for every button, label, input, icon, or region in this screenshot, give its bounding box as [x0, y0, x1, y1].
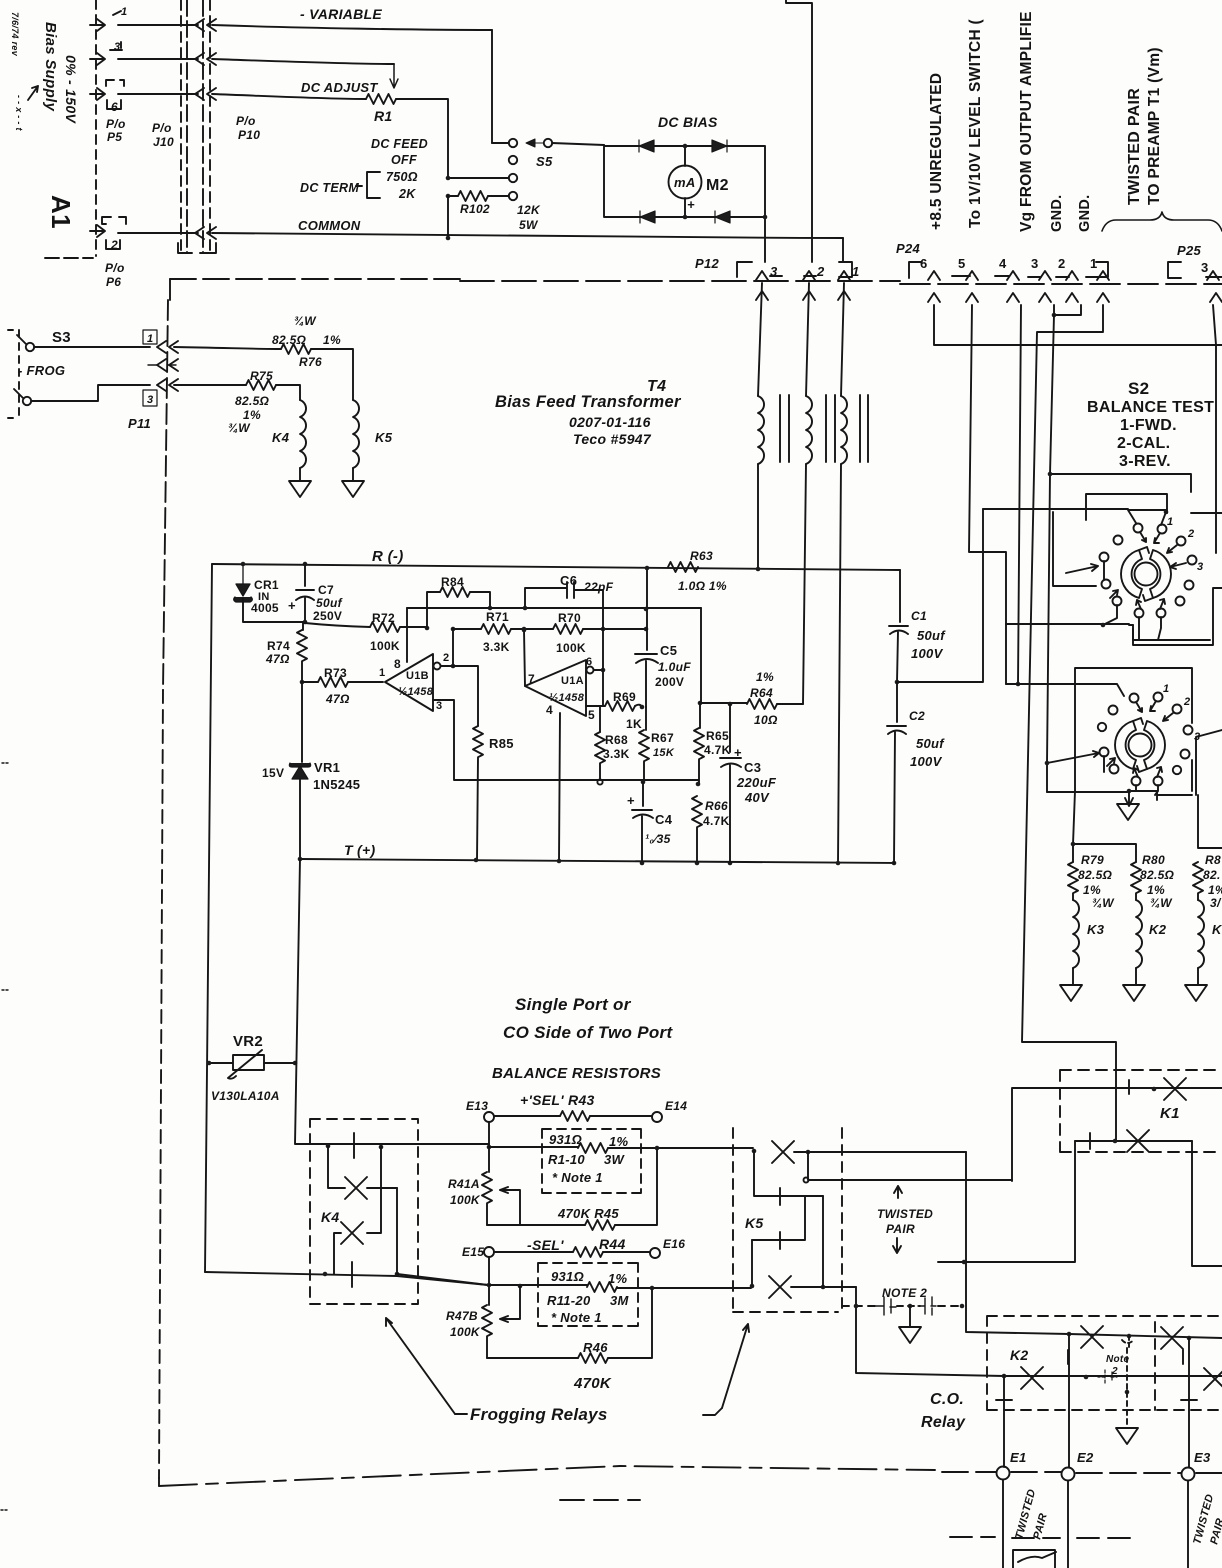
svg-text:* Note 1: * Note 1	[551, 1310, 602, 1325]
wire K5 rowA to K2 row1	[966, 1152, 1069, 1334]
svg-text:C.O.: C.O.	[930, 1391, 964, 1408]
svg-text:200V: 200V	[655, 675, 684, 689]
note2 ground	[909, 1306, 911, 1327]
svg-text:K4: K4	[272, 430, 290, 445]
S3 wire bottom	[31, 385, 150, 401]
svg-text:K5: K5	[745, 1215, 764, 1231]
T4 core bars 3	[860, 395, 868, 462]
svg-text:R76: R76	[299, 355, 322, 369]
K4 bottom row	[323, 1272, 328, 1277]
note2b dashed elements	[1098, 1370, 1117, 1384]
svg-text:P/o: P/o	[152, 121, 172, 135]
P12 pin 2	[803, 271, 815, 280]
svg-text:3: 3	[1197, 561, 1203, 573]
op-amp U1A	[525, 660, 586, 716]
svg-text:+: +	[627, 793, 635, 808]
svg-text:3: 3	[147, 394, 153, 406]
P11 pin mid arrow	[148, 364, 176, 366]
svg-text:470K: 470K	[573, 1375, 612, 1392]
svg-text:R1: R1	[374, 108, 393, 124]
svg-text:E3: E3	[1194, 1450, 1211, 1465]
svg-text:R47B: R47B	[446, 1309, 478, 1323]
svg-text:OFF: OFF	[391, 153, 417, 167]
resistor R73	[300, 680, 305, 685]
A1 assembly rotated title text	[10, 12, 79, 229]
svg-text:3W: 3W	[604, 1152, 626, 1167]
svg-text:- FROG: - FROG	[18, 363, 65, 378]
svg-text:T (+): T (+)	[344, 842, 375, 858]
svg-text:100V: 100V	[911, 646, 944, 661]
svg-text:Single Port or: Single Port or	[515, 995, 632, 1014]
svg-text:1%: 1%	[756, 670, 774, 684]
R69	[605, 701, 635, 711]
P25 pin 3	[1207, 271, 1219, 280]
pin 2 bubble	[434, 663, 441, 670]
K2 row 2	[1004, 1375, 1222, 1377]
svg-text:3.3K: 3.3K	[603, 747, 630, 761]
svg-text:4.7K: 4.7K	[704, 743, 731, 757]
capacitor C7	[303, 562, 308, 567]
wire P5.3 to P10	[118, 58, 198, 60]
svg-text:2: 2	[110, 238, 118, 252]
svg-text:K5: K5	[375, 430, 393, 445]
preamp pin1 wire down to K1	[1022, 305, 1116, 1141]
resistor R81	[1193, 862, 1203, 893]
svg-text:4: 4	[546, 703, 553, 717]
svg-text:K1: K1	[1160, 1105, 1180, 1122]
A1 boundary dashed vertical left	[163, 300, 168, 690]
ground K3	[1060, 985, 1082, 1001]
svg-text:+: +	[687, 197, 695, 212]
resistor R75	[246, 380, 276, 390]
node line y608 corner to R65	[700, 608, 702, 703]
svg-text:P12: P12	[695, 256, 720, 271]
E13 leg down	[488, 1122, 490, 1172]
svg-text:1: 1	[121, 6, 127, 18]
wire P5.1 to P10	[118, 24, 198, 26]
connector P5 pin 6	[90, 80, 124, 114]
svg-text:E13: E13	[466, 1099, 488, 1113]
svg-text:931Ω: 931Ω	[549, 1132, 582, 1147]
switch 2 bottom wire to ground	[1104, 756, 1158, 795]
svg-text:R41A: R41A	[448, 1177, 480, 1191]
R72 wire	[305, 623, 370, 627]
pin 3 route	[433, 700, 698, 780]
pot R41A	[482, 1172, 492, 1203]
svg-text:50uf: 50uf	[916, 736, 945, 751]
resistor R76	[281, 344, 311, 354]
svg-text:250V: 250V	[313, 609, 342, 623]
diode CR1	[234, 565, 253, 602]
svg-text:100K: 100K	[450, 1325, 481, 1339]
relay coil K5	[353, 400, 359, 468]
switch 1 contacts	[1100, 524, 1197, 618]
left vertical to K4 bottom row	[205, 1272, 488, 1285]
svg-text:1%: 1%	[1083, 883, 1101, 897]
svg-text:82.: 82.	[1203, 868, 1221, 882]
pin 8 line	[406, 608, 408, 662]
svg-text:R46: R46	[583, 1340, 608, 1355]
K4 vertical right inner	[396, 1188, 398, 1274]
svg-text:+: +	[734, 745, 742, 760]
svg-text:P/o: P/o	[106, 117, 126, 131]
svg-text:82.5Ω: 82.5Ω	[1140, 868, 1175, 882]
svg-text:1-FWD.: 1-FWD.	[1120, 417, 1177, 434]
svg-text:R44: R44	[599, 1236, 626, 1252]
svg-text:S2: S2	[1128, 379, 1149, 398]
resistor R74	[302, 622, 304, 630]
svg-text:¾W: ¾W	[1092, 896, 1115, 910]
select resistor net 2 wire	[489, 1284, 587, 1286]
svg-text:COMMON: COMMON	[298, 218, 361, 233]
relay coil K3	[1073, 900, 1079, 968]
svg-text:R63: R63	[690, 549, 713, 563]
svg-text:100V: 100V	[910, 754, 943, 769]
meter M2	[669, 166, 702, 199]
switch 1 rotor	[1121, 550, 1142, 598]
tap to second pair wire	[808, 1152, 1012, 1180]
svg-text:3: 3	[1031, 256, 1039, 271]
DC ADJUST wiper corner + arrow	[390, 64, 398, 88]
wire P5.2 to P10	[118, 232, 198, 234]
K5 left leg	[754, 1151, 823, 1196]
label DC FEED OFF 750 2K	[371, 137, 428, 201]
node R- to CR1	[241, 562, 246, 567]
svg-text:CR1: CR1	[254, 578, 279, 592]
+8.5 unregulated wire	[934, 305, 1222, 345]
svg-text:R11-20: R11-20	[547, 1293, 591, 1308]
K5 dashed box	[733, 1128, 842, 1312]
svg-text:C3: C3	[744, 760, 761, 775]
svg-text:+8.5 UNREGULATED: +8.5 UNREGULATED	[928, 73, 945, 230]
svg-text:2: 2	[816, 264, 825, 279]
svg-text:DC BIAS: DC BIAS	[658, 114, 718, 130]
svg-text:P11: P11	[128, 416, 151, 431]
svg-text:+: +	[288, 598, 296, 613]
R70	[553, 624, 583, 634]
svg-text:M2: M2	[706, 177, 729, 194]
switch 1 wiper feed	[983, 509, 1166, 523]
resistor R79	[1068, 862, 1078, 893]
svg-text:0207-01-116: 0207-01-116	[569, 414, 651, 430]
svg-text:2-CAL.: 2-CAL.	[1117, 435, 1170, 452]
P24 connector bracket	[909, 262, 1108, 278]
svg-text:R73: R73	[324, 666, 347, 680]
svg-text:931Ω: 931Ω	[551, 1269, 584, 1284]
wire pin1 to R76	[174, 347, 281, 349]
svg-text:V130LA10A: V130LA10A	[211, 1089, 280, 1103]
T(+) bus	[300, 859, 894, 863]
svg-text:R74: R74	[267, 639, 290, 653]
COMMON wire	[212, 233, 843, 238]
K5 left leg 2	[751, 1240, 753, 1285]
R63 in bus	[668, 562, 698, 572]
svg-text:DC TERM: DC TERM	[300, 181, 359, 195]
bridge diode top-left (points left)	[639, 140, 654, 152]
T4 winding 2	[806, 283, 809, 396]
ground K1r	[1185, 985, 1207, 1001]
svg-text:6: 6	[111, 100, 118, 114]
svg-text:50uf: 50uf	[316, 596, 343, 610]
K5 inner vertical	[822, 1196, 824, 1287]
svg-text:22pF: 22pF	[583, 580, 614, 594]
wire R76 corner down to K5	[311, 349, 353, 400]
wire top right entry	[786, 0, 812, 262]
K2 ticks	[1068, 1350, 1183, 1364]
svg-text:K4: K4	[321, 1209, 340, 1225]
S2 labels	[1087, 379, 1214, 470]
left box vertical	[205, 564, 212, 1272]
svg-text:15K: 15K	[653, 747, 675, 759]
svg-text:220uF: 220uF	[736, 775, 777, 790]
svg-text:6: 6	[920, 256, 928, 271]
pin 5	[586, 705, 605, 707]
wire pin3 to R75	[174, 384, 246, 386]
K4 left leg	[328, 1146, 345, 1188]
pin 2 to R72 line	[452, 629, 454, 666]
dashed note box 1	[542, 1129, 641, 1193]
arrow to title	[28, 86, 38, 100]
R71	[453, 628, 481, 630]
resistor R102	[458, 191, 488, 201]
svg-text:7/6/74 rev: 7/6/74 rev	[10, 12, 20, 57]
svg-text:VR2: VR2	[233, 1033, 263, 1050]
J10/P10 arrows pin row2	[195, 53, 216, 65]
svg-text:P24: P24	[896, 241, 921, 256]
curly brace over twisted pair pins	[1102, 212, 1222, 231]
U1A right vertical node	[602, 629, 604, 706]
R67 column	[645, 707, 647, 730]
svg-text:R64: R64	[750, 686, 773, 700]
S3 contact top	[26, 343, 34, 351]
J10/P10 arrows pin row3	[195, 88, 216, 100]
bottom loop R46	[487, 1357, 578, 1359]
E1 drop	[1003, 1376, 1005, 1467]
svg-text:1%: 1%	[609, 1134, 629, 1149]
svg-text:1: 1	[1090, 256, 1098, 271]
relay coil K2	[1136, 900, 1142, 968]
wire P5.6 to P10	[118, 93, 198, 95]
svg-text:1: 1	[1163, 683, 1169, 695]
svg-text:1%: 1%	[323, 333, 341, 347]
svg-text:4.7K: 4.7K	[703, 814, 730, 828]
svg-text:BALANCE RESISTORS: BALANCE RESISTORS	[492, 1065, 661, 1082]
J10/P10 arrows pin row1	[195, 19, 216, 31]
svg-text:C2: C2	[909, 709, 925, 723]
wire row3 to R1	[212, 94, 366, 99]
svg-text:E16: E16	[663, 1237, 685, 1251]
svg-text:- VARIABLE: - VARIABLE	[300, 6, 382, 22]
svg-text:E14: E14	[665, 1099, 687, 1113]
pin arrows below boundary P24	[928, 293, 940, 302]
svg-text:12K: 12K	[517, 203, 541, 217]
svg-text:47Ω: 47Ω	[265, 652, 290, 666]
wire row2 to DC ADJUST corner	[212, 59, 394, 64]
svg-text:TO PREAMP T1 (Vm): TO PREAMP T1 (Vm)	[1146, 47, 1163, 205]
C5 column	[635, 568, 658, 707]
svg-text:1K: 1K	[626, 717, 642, 731]
svg-text:R (-): R (-)	[372, 548, 404, 565]
svg-text:3: 3	[114, 41, 120, 53]
svg-text:R8: R8	[1205, 853, 1221, 867]
E2 drop	[1068, 1334, 1070, 1467]
wire R1 corner down to common	[447, 196, 449, 238]
svg-text:3/: 3/	[1210, 896, 1222, 910]
svg-text:C1: C1	[911, 609, 927, 623]
svg-text:100K: 100K	[450, 1193, 481, 1207]
wire K5 rowB to K2 row2	[856, 1287, 1004, 1376]
svg-text:- - x - - t: - - x - - t	[14, 95, 24, 131]
svg-text:3: 3	[436, 700, 442, 712]
A1 boundary corner bottom-left	[45, 257, 93, 259]
svg-text:1: 1	[379, 667, 385, 679]
P12 pin 3	[756, 271, 768, 280]
P11 pin 1	[143, 330, 157, 344]
T4 core bars 2	[826, 395, 835, 462]
P24 pin 4	[1007, 271, 1019, 280]
svg-text:1%: 1%	[243, 408, 261, 422]
switch 1 arrows	[1140, 532, 1146, 542]
S3 dashed outline	[18, 330, 20, 418]
ground K2 coil	[1123, 985, 1145, 1001]
P24 pin 1	[1097, 271, 1109, 280]
E3 drop	[1188, 1338, 1190, 1467]
P24 pin 5	[966, 271, 978, 280]
svg-text:82.5Ω: 82.5Ω	[235, 394, 270, 408]
svg-text:DC ADJUST: DC ADJUST	[301, 80, 378, 95]
ground K4	[289, 481, 311, 497]
svg-text:100K: 100K	[370, 639, 400, 653]
A1 boundary dashed vertical top-left	[95, 0, 97, 256]
svg-text:1: 1	[147, 333, 153, 345]
resistor R80	[1131, 862, 1141, 893]
E14 terminal	[652, 1112, 662, 1122]
svg-text:2K: 2K	[398, 187, 416, 201]
svg-text:1: 1	[852, 264, 860, 279]
svg-text:2: 2	[1187, 528, 1194, 540]
K4 X contact 2	[341, 1222, 363, 1244]
svg-text:R67: R67	[651, 731, 674, 745]
svg-text:750Ω: 750Ω	[386, 170, 418, 184]
svg-text:R69: R69	[613, 690, 636, 704]
svg-text:3: 3	[770, 264, 778, 279]
svg-text:Vg FROM OUTPUT AMPLIFIE: Vg FROM OUTPUT AMPLIFIE	[1018, 11, 1035, 232]
ground K5	[342, 481, 364, 497]
svg-text:470K R45: 470K R45	[557, 1206, 619, 1221]
K4 right leg	[367, 1147, 381, 1233]
T4 winding 1	[758, 283, 762, 396]
svg-text:P25: P25	[1177, 243, 1202, 258]
R85 top wire	[453, 666, 478, 726]
wire 2K tap through R102	[448, 195, 509, 197]
C3 column	[720, 704, 741, 863]
svg-text:1%: 1%	[608, 1271, 628, 1286]
junction	[446, 176, 451, 181]
R65 column	[699, 703, 701, 728]
wire 750 tap	[448, 177, 509, 179]
svg-text:K: K	[1212, 922, 1222, 937]
svg-text:Note: Note	[1106, 1354, 1130, 1365]
svg-text:7: 7	[528, 672, 535, 686]
svg-text:DC FEED: DC FEED	[371, 137, 428, 151]
bridge diode top-right (points right)	[712, 140, 727, 152]
svg-text:0% - 150V: 0% - 150V	[63, 55, 79, 124]
svg-text:Bias Feed Transformer: Bias Feed Transformer	[495, 393, 682, 411]
relay coil K1r	[1198, 900, 1204, 968]
R68 column	[599, 706, 601, 732]
E15 leg down	[488, 1257, 490, 1305]
svg-text:U1B: U1B	[406, 670, 429, 682]
svg-text:1.0Ω 1%: 1.0Ω 1%	[678, 579, 727, 593]
Vg wire down	[1018, 305, 1021, 684]
K2 row 1	[1067, 1332, 1072, 1337]
switch 2 arrows	[1136, 702, 1142, 712]
meter M2 stem	[684, 146, 686, 217]
COMMON corner down to P12 pin1	[842, 238, 844, 262]
svg-text:A1: A1	[46, 195, 76, 229]
wire C1C2 mid to switch	[897, 509, 983, 682]
pin8/R84/C6 node line	[407, 607, 701, 609]
svg-text:Frogging Relays: Frogging Relays	[470, 1405, 608, 1424]
P12 pin 1	[838, 271, 850, 280]
svg-text:PAIR: PAIR	[1208, 1517, 1222, 1546]
svg-text:3.3K: 3.3K	[483, 640, 510, 654]
S3 wire top	[34, 346, 150, 348]
svg-text:47Ω: 47Ω	[325, 692, 350, 706]
svg-text:U1A: U1A	[561, 675, 584, 687]
svg-text:R72: R72	[372, 611, 395, 625]
switch 2 contacts	[1098, 693, 1193, 786]
wire S5 to DC bias box	[552, 143, 604, 145]
bottom loop R45	[487, 1224, 585, 1226]
wire corner to S5 pole	[492, 142, 509, 144]
boundary corner at P11	[169, 279, 171, 300]
svg-text:E1: E1	[1010, 1450, 1027, 1465]
svg-text:C4: C4	[655, 812, 673, 827]
VARIABLE wire corner down	[491, 30, 493, 143]
VR1 node down through VR2 to K4	[295, 859, 489, 1144]
pin 6 bubble	[587, 667, 594, 674]
DC bias bridge box	[604, 145, 765, 262]
connector P5 pin 1	[90, 6, 127, 31]
switch 2 box	[1047, 668, 1192, 792]
K1 row2 right leg down	[1192, 1141, 1222, 1266]
svg-text:BALANCE TEST: BALANCE TEST	[1087, 399, 1214, 416]
svg-text:To 1V/10V LEVEL SWITCH (: To 1V/10V LEVEL SWITCH (	[967, 18, 984, 228]
resistor R1	[366, 94, 396, 104]
svg-text:4005: 4005	[251, 601, 279, 615]
dashed note box 2	[538, 1263, 638, 1326]
svg-text:R71: R71	[486, 610, 509, 624]
svg-text:CO Side of Two Port: CO Side of Two Port	[503, 1023, 673, 1042]
svg-text:R1-10: R1-10	[548, 1152, 585, 1167]
svg-text:TWISTED PAIR: TWISTED PAIR	[1126, 88, 1143, 205]
switch 1 bottom wires	[1103, 561, 1117, 625]
svg-text:3: 3	[1194, 731, 1200, 743]
svg-text:E2: E2	[1077, 1450, 1094, 1465]
pin 4 line	[559, 713, 560, 861]
K1 row 1 wire	[1012, 1088, 1222, 1181]
T4 core bars 1	[780, 395, 789, 462]
wire R75 corner down to K4	[276, 385, 300, 400]
T4 winding 3	[841, 283, 844, 396]
K4 dashed box	[310, 1119, 418, 1304]
svg-text:TWISTED: TWISTED	[877, 1207, 933, 1221]
svg-text:5: 5	[958, 256, 966, 271]
R44	[494, 1251, 573, 1253]
R66 column	[692, 796, 702, 827]
svg-text:82.5Ω: 82.5Ω	[1078, 868, 1113, 882]
